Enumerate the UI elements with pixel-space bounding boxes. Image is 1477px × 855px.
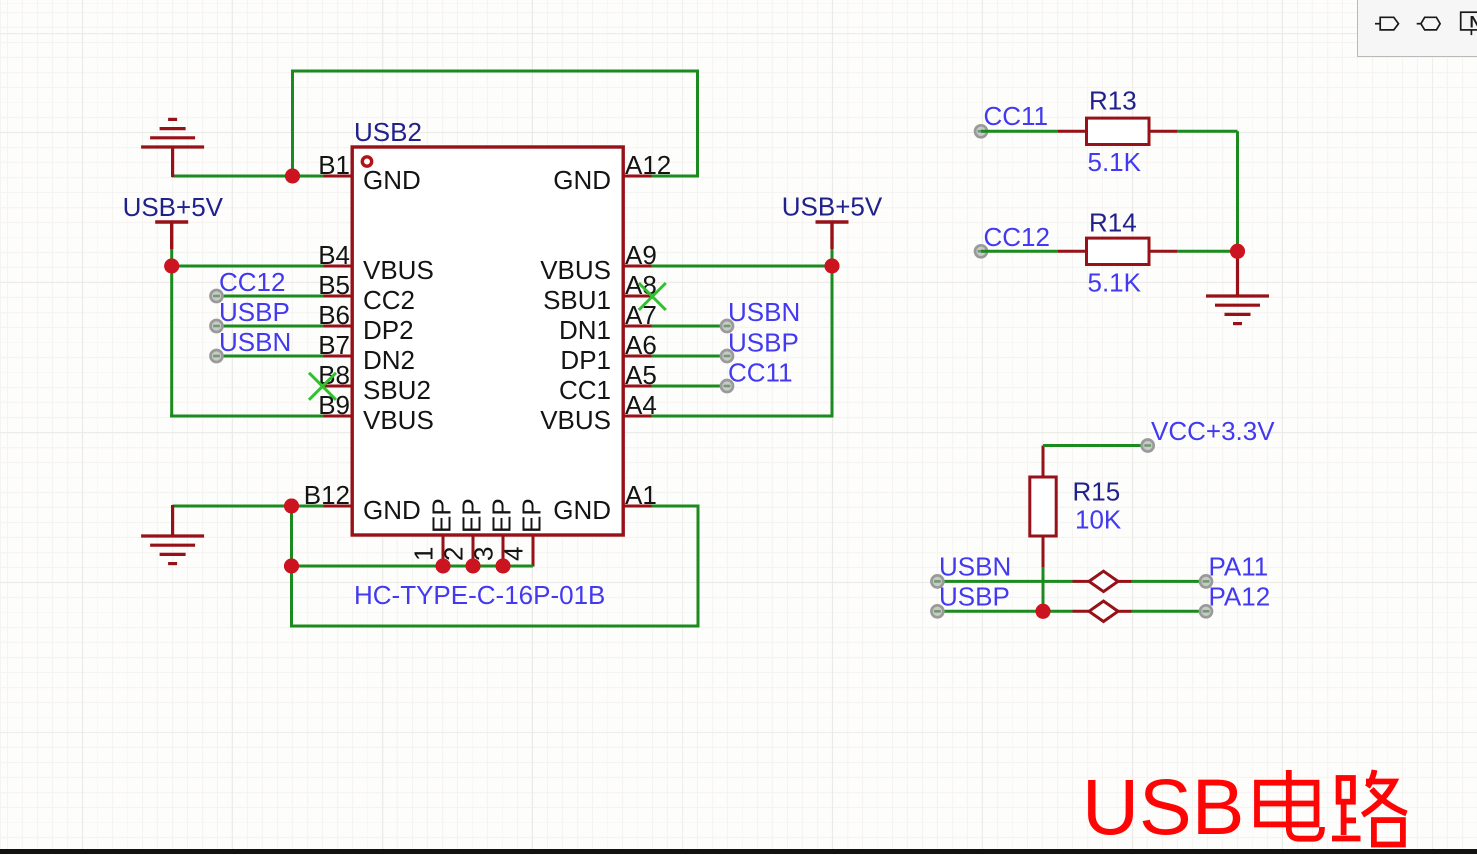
power flag USB+5V right xyxy=(816,222,849,249)
junction R14/ground xyxy=(1230,244,1245,259)
svg-text:USB+5V: USB+5V xyxy=(123,192,224,222)
junction EP pin 3 xyxy=(496,559,511,574)
wire B12 to ground xyxy=(173,505,324,508)
svg-text:1: 1 xyxy=(409,547,439,561)
pin A9 (VBUS) xyxy=(540,240,657,285)
ground (right) xyxy=(1206,296,1269,324)
resistor R15 xyxy=(1030,446,1056,568)
wire B1 to ground net xyxy=(172,175,324,178)
wire top horizontal xyxy=(291,70,699,73)
pad USBN (bottom) xyxy=(931,575,943,587)
svg-text:R14: R14 xyxy=(1089,208,1137,238)
wire vertical up from B1 node xyxy=(291,71,294,178)
pad USBP (bottom) xyxy=(931,605,943,617)
wire diamond to PA12 xyxy=(1132,610,1207,613)
wire A12 xyxy=(652,175,700,178)
pin B7 (DN2) xyxy=(318,330,415,375)
wire CC11 to R13 xyxy=(981,130,1058,133)
pin B12 (GND) xyxy=(304,480,421,525)
pin 4 (EP) xyxy=(499,498,547,566)
svg-text:VBUS: VBUS xyxy=(363,255,434,285)
pin B8 (SBU2) xyxy=(318,360,431,405)
svg-text:USBN: USBN xyxy=(728,297,800,327)
svg-text:USBN: USBN xyxy=(939,552,1011,582)
pin A6 (DP1) xyxy=(560,330,656,375)
pad PA11 xyxy=(1200,575,1212,587)
wire B9 xyxy=(170,415,324,418)
ground (bottom left) xyxy=(141,536,204,564)
svg-text:EP: EP xyxy=(517,498,547,533)
svg-text:HC-TYPE-C-16P-01B: HC-TYPE-C-16P-01B xyxy=(354,580,605,610)
resistor R14 xyxy=(1058,238,1177,264)
svg-text:USBP: USBP xyxy=(728,328,799,358)
svg-text:EP: EP xyxy=(457,498,487,533)
wire diamond to PA11 xyxy=(1132,580,1207,583)
toolbar icon: net label flag xyxy=(1375,17,1399,30)
svg-text:VCC+3.3V: VCC+3.3V xyxy=(1151,416,1275,446)
pin A5 (CC1) xyxy=(559,360,657,405)
junction at B1 node xyxy=(285,169,300,184)
wire USBP to diamond xyxy=(937,610,1072,613)
net port diamond (USBN/PA11) xyxy=(1073,571,1132,591)
svg-text:CC12: CC12 xyxy=(219,267,285,297)
svg-text:R13: R13 xyxy=(1089,86,1137,116)
pin B5 (CC2) xyxy=(318,270,415,315)
pad CC11 right xyxy=(721,380,733,392)
pad CC11 (R13) xyxy=(975,125,987,137)
toolbar icon: N flag xyxy=(1461,12,1477,35)
wire R15 to VCC+3.3V xyxy=(1043,444,1148,447)
svg-text:DN2: DN2 xyxy=(363,345,415,375)
ground (top left, bars up) xyxy=(141,119,204,147)
svg-text:USBP: USBP xyxy=(219,297,290,327)
svg-text:USB+5V: USB+5V xyxy=(782,192,883,222)
pad USBP xyxy=(211,320,223,332)
wire CC12 to R14 xyxy=(981,250,1058,253)
junction R15/USBP xyxy=(1036,604,1051,619)
junction at USB+5V left xyxy=(164,259,179,274)
svg-text:R15: R15 xyxy=(1073,477,1121,507)
svg-text:CC2: CC2 xyxy=(363,285,415,315)
resistor R13 xyxy=(1058,118,1177,144)
svg-text:USB: USB xyxy=(1082,762,1244,851)
connector USB2 body xyxy=(352,147,623,535)
toolbar icon: net port hexagon xyxy=(1417,17,1440,30)
svg-text:10K: 10K xyxy=(1075,505,1122,535)
wire B5 to CC12 label xyxy=(217,295,324,298)
wire A7 to USBN label xyxy=(652,325,728,328)
power flag USB+5V left xyxy=(155,222,188,249)
title glyph 电 xyxy=(1257,770,1322,839)
pin A7 (DN1) xyxy=(559,300,657,345)
net port diamond (USBP/PA12) xyxy=(1073,601,1132,621)
wire R15 to USBP node xyxy=(1042,567,1045,611)
junction dots overlay xyxy=(285,169,300,184)
pad VCC+3.3V xyxy=(1142,440,1154,452)
svg-text:SBU1: SBU1 xyxy=(543,285,611,315)
wire R14 to rail xyxy=(1177,250,1238,253)
wire vertical up to A1 xyxy=(697,506,700,628)
wire USBN to diamond xyxy=(937,580,1072,583)
wire A9 (USB+5V right) xyxy=(652,265,833,268)
svg-text:PA12: PA12 xyxy=(1209,582,1271,612)
junction EP pin 2 xyxy=(466,559,481,574)
pin-1 indicator circle xyxy=(362,157,371,166)
wire A4 xyxy=(652,415,834,418)
toolbar panel (top right) xyxy=(1357,0,1477,57)
pad USBN right xyxy=(721,320,733,332)
wire A6 to USBP label xyxy=(652,355,728,358)
wire vertical from B12 node xyxy=(290,506,293,628)
pad USBP right xyxy=(721,350,733,362)
pin A1 (GND) xyxy=(553,480,657,525)
svg-text:VBUS: VBUS xyxy=(540,255,611,285)
pin 3 (EP) xyxy=(469,498,517,566)
pin A8 (SBU1) xyxy=(543,270,657,315)
svg-text:PA11: PA11 xyxy=(1209,552,1269,582)
wire A1 xyxy=(652,505,700,508)
junction at B12 node xyxy=(284,499,299,514)
wire R13 to rail xyxy=(1177,130,1238,133)
pad PA12 xyxy=(1200,605,1212,617)
svg-text:CC12: CC12 xyxy=(984,222,1050,252)
pin B9 (VBUS) xyxy=(318,390,434,435)
svg-text:USB2: USB2 xyxy=(354,117,422,147)
junction EP pin 1 xyxy=(436,559,451,574)
svg-text:SBU2: SBU2 xyxy=(363,375,431,405)
pin 1 (EP) xyxy=(409,498,457,566)
wire vertical R13-R14 xyxy=(1236,131,1239,251)
svg-text:GND: GND xyxy=(363,495,421,525)
pin 2 (EP) xyxy=(439,498,487,566)
pad CC12 (R14) xyxy=(975,245,987,257)
wire bottom horizontal xyxy=(290,625,700,628)
svg-text:5.1K: 5.1K xyxy=(1088,268,1142,298)
window bottom edge bar xyxy=(0,849,1477,854)
svg-text:GND: GND xyxy=(553,495,611,525)
junction at USB+5V right xyxy=(825,259,840,274)
svg-text:EP: EP xyxy=(427,498,457,533)
svg-text:DP2: DP2 xyxy=(363,315,414,345)
pin A4 (VBUS) xyxy=(540,390,657,435)
junction EP bus left xyxy=(284,559,299,574)
svg-text:EP: EP xyxy=(487,498,517,533)
svg-text:GND: GND xyxy=(553,165,611,195)
svg-text:DN1: DN1 xyxy=(559,315,611,345)
svg-text:CC11: CC11 xyxy=(728,358,793,388)
svg-text:DP1: DP1 xyxy=(560,345,611,375)
svg-text:N: N xyxy=(1470,13,1477,31)
wire right vertical rail xyxy=(831,249,834,418)
wire EP bus xyxy=(292,565,534,568)
svg-text:GND: GND xyxy=(363,165,421,195)
wire B4 (USB+5V) xyxy=(172,265,324,268)
svg-text:VBUS: VBUS xyxy=(363,405,434,435)
pad CC12 xyxy=(211,290,223,302)
pin B6 (DP2) xyxy=(318,300,413,345)
svg-text:USBN: USBN xyxy=(219,327,291,357)
wire B7 to USBN label xyxy=(217,355,324,358)
svg-text:CC11: CC11 xyxy=(984,101,1049,131)
no-connect X at A8 xyxy=(639,283,666,310)
wire vertical down to A12 xyxy=(696,71,699,176)
wire A5 to CC11 label xyxy=(652,385,728,388)
svg-text:USBP: USBP xyxy=(939,582,1010,612)
wire left vertical rail xyxy=(170,249,173,418)
pin B4 (VBUS) xyxy=(318,240,434,285)
svg-text:VBUS: VBUS xyxy=(540,405,611,435)
svg-text:CC1: CC1 xyxy=(559,375,611,405)
svg-text:5.1K: 5.1K xyxy=(1088,147,1142,177)
pin B1 (GND) xyxy=(318,150,421,195)
title glyph 路 xyxy=(1332,770,1407,845)
no-connect X at B8 xyxy=(309,373,336,400)
pin A12 (GND) xyxy=(553,150,671,195)
pad USBN xyxy=(211,350,223,362)
wire B6 to USBP label xyxy=(217,325,324,328)
